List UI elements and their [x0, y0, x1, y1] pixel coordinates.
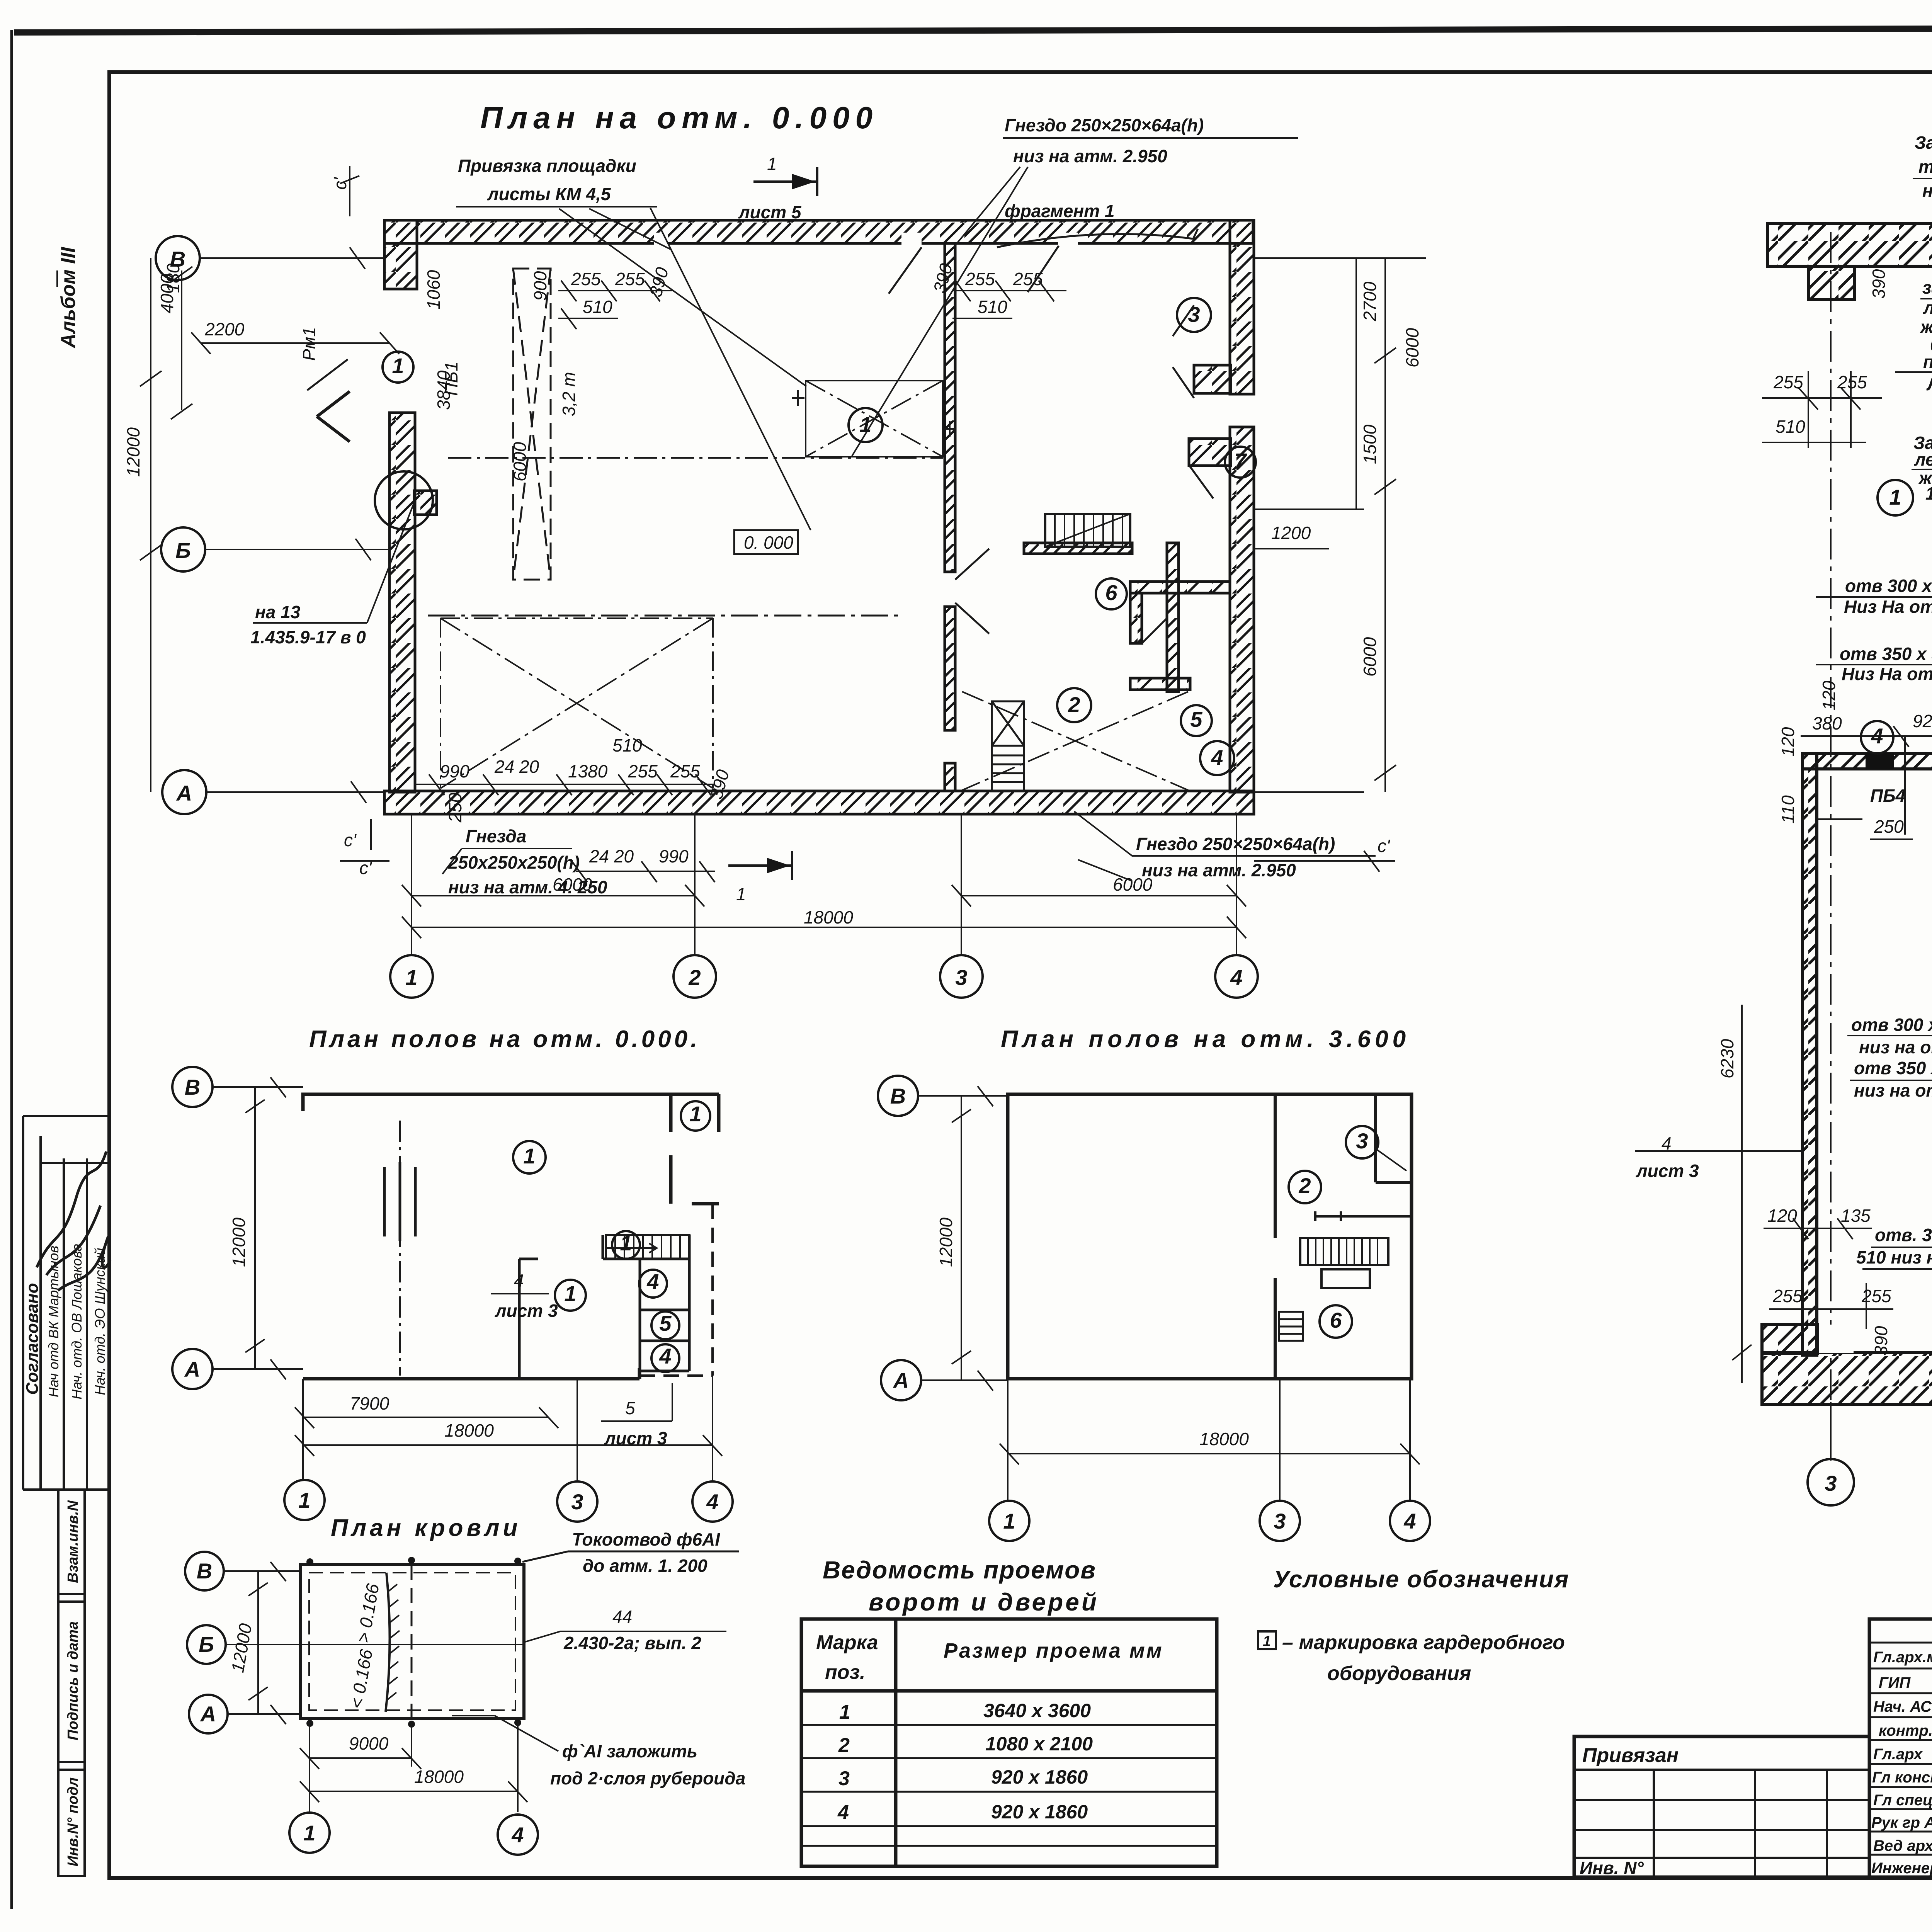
svg-text:А: А [200, 1702, 216, 1726]
svg-text:1500: 1500 [1360, 424, 1380, 464]
bottom wall left step [1762, 1325, 1817, 1353]
svg-text:510: 510 [612, 735, 642, 755]
grid circles floor0 [172, 1067, 213, 1107]
svg-text:3: 3 [1356, 1129, 1368, 1153]
svg-text:Рм1: Рм1 [299, 327, 319, 361]
lower-left outer wall [1803, 753, 1817, 1355]
svg-text:4: 4 [514, 1270, 524, 1291]
svg-text:Гл.арх.мн.: Гл.арх.мн. [1873, 1649, 1932, 1666]
circled 4 + ПБ4 [1861, 721, 1893, 753]
svg-text:255: 255 [615, 269, 645, 289]
roof outline double [301, 1565, 524, 1718]
svg-text:ф`АІ заложить: ф`АІ заложить [562, 1741, 697, 1761]
svg-text:990: 990 [659, 846, 689, 866]
bottom wall [384, 791, 1254, 814]
svg-text:Взам.инв.N: Взам.инв.N [65, 1500, 81, 1583]
left wall step [414, 491, 437, 515]
right wall lower [1230, 427, 1254, 792]
svg-text:оборудования: оборудования [1327, 1662, 1471, 1685]
interior partitions floor0 [519, 1259, 538, 1379]
svg-text:12000: 12000 [936, 1218, 956, 1267]
roof centre dashed [411, 1565, 413, 1718]
svg-text:6: 6 [1330, 1308, 1342, 1332]
svg-text:Гнездо 250×250×64а(h): Гнездо 250×250×64а(h) [1136, 834, 1335, 854]
staff table [1869, 1619, 1932, 1877]
grate 36 [1279, 1312, 1303, 1341]
centerline dash-dot [448, 457, 943, 459]
svg-text:1: 1 [1003, 1509, 1015, 1533]
svg-text:Вед арх: Вед арх [1873, 1837, 1932, 1854]
svg-text:24 20: 24 20 [494, 757, 539, 777]
svg-text:Токоотвод ф6АІ: Токоотвод ф6АІ [572, 1529, 720, 1549]
svg-text:2: 2 [688, 965, 701, 990]
legend icon [1258, 1631, 1276, 1649]
svg-text:Гл констр: Гл констр [1872, 1769, 1932, 1786]
grid circle B [156, 236, 200, 280]
svg-text:120: 120 [1767, 1206, 1797, 1226]
svg-text:1200: 1200 [1271, 523, 1311, 543]
grid circles roof bottom [289, 1813, 330, 1853]
svg-text:1: 1 [689, 1102, 701, 1126]
elevation box 0.000 [734, 530, 798, 554]
grid circle А [162, 770, 206, 814]
sheet outer edge left [10, 30, 13, 1909]
svg-text:4: 4 [511, 1823, 524, 1847]
svg-text:лист 3: лист 3 [495, 1301, 558, 1321]
left dim 12000 [140, 258, 162, 792]
room labels 36 [1289, 1171, 1321, 1203]
svg-text:Подпись и дата: Подпись и дата [65, 1621, 81, 1740]
left dim 4000 [171, 267, 192, 419]
svg-text:6: 6 [1105, 580, 1117, 605]
svg-text:Б: Б [199, 1632, 214, 1656]
svg-text:255: 255 [571, 269, 601, 289]
entrance arrow [317, 391, 350, 442]
interior wall axis3 [945, 243, 955, 572]
top wall door notches [654, 233, 668, 246]
svg-text:920 х 1860: 920 х 1860 [991, 1766, 1088, 1788]
plan outline 36 [1008, 1094, 1412, 1379]
svg-text:Нач. АСО: Нач. АСО [1873, 1698, 1932, 1715]
svg-text:1080 х 2100: 1080 х 2100 [985, 1733, 1093, 1755]
grid line 2 [694, 814, 696, 955]
svg-text:1: 1 [839, 1701, 850, 1723]
svg-text:ления трубопроводов зала-: ления трубопроводов зала- [1914, 449, 1932, 469]
svg-text:Ведомость проемов: Ведомость проемов [823, 1556, 1096, 1584]
svg-text:на отметках 0 800 и 1.200 М-4: на отметках 0 800 и 1.200 М-4 [1922, 180, 1932, 201]
svg-text:9000: 9000 [349, 1733, 389, 1753]
top wall [384, 220, 1253, 243]
room circle 5 [1181, 705, 1212, 736]
horizontal wall at widening [1803, 753, 1932, 769]
lower sidebar strip boxes [58, 1490, 85, 1877]
svg-text:Гл спец: Гл спец [1873, 1792, 1932, 1809]
svg-text:5: 5 [659, 1311, 672, 1335]
svg-text:0. 000: 0. 000 [744, 532, 793, 553]
grid circles 36 [878, 1076, 918, 1116]
svg-text:План полов на отм. 3.600: План полов на отм. 3.600 [1001, 1026, 1410, 1053]
svg-text:4: 4 [659, 1344, 671, 1368]
svg-text:18000: 18000 [444, 1420, 494, 1440]
svg-text:отв 300 х300 ов: отв 300 х300 ов [1851, 1015, 1932, 1035]
left corner block [384, 220, 417, 289]
svg-text:План кровли: План кровли [331, 1515, 521, 1541]
stair floor0 [606, 1235, 689, 1259]
axis 3 vertical dash-dot [1830, 232, 1832, 1461]
svg-text:255: 255 [965, 269, 995, 289]
svg-text:6230: 6230 [1717, 1039, 1737, 1078]
svg-text:2: 2 [1298, 1173, 1311, 1198]
svg-text:Условные обозначения: Условные обозначения [1273, 1566, 1569, 1593]
svg-text:поз.: поз. [825, 1661, 866, 1684]
svg-text:1: 1 [523, 1144, 535, 1168]
svg-text:низ на атм. 2.950: низ на атм. 2.950 [1013, 146, 1167, 166]
svg-text:В: В [197, 1559, 212, 1583]
svg-text:135: 135 [1841, 1206, 1871, 1226]
roof slope break line [386, 1573, 390, 1712]
svg-text:250: 250 [445, 793, 465, 823]
svg-text:4: 4 [1403, 1509, 1416, 1533]
svg-text:закладные детали для креп-: закладные детали для креп- [1922, 277, 1932, 298]
svg-text:5: 5 [625, 1398, 635, 1418]
svg-text:Привязан: Привязан [1582, 1744, 1679, 1767]
dim 2200 [191, 332, 399, 354]
svg-text:Альбом III: Альбом III [57, 247, 80, 349]
svg-text:Инженер: Инженер [1871, 1860, 1932, 1877]
svg-text:под 2·слоя рубероида: под 2·слоя рубероида [550, 1768, 745, 1788]
svg-text:3: 3 [571, 1490, 583, 1514]
left wall [389, 413, 415, 792]
svg-text:Гл.арх: Гл.арх [1873, 1746, 1923, 1763]
svg-text:255: 255 [1013, 269, 1043, 289]
svg-text:низ на атм. 2.950: низ на атм. 2.950 [1142, 860, 1296, 880]
svg-text:Размер проема мм: Размер проема мм [944, 1639, 1163, 1662]
svg-text:1: 1 [298, 1488, 310, 1512]
svg-text:2.430-2а; вып. 2: 2.430-2а; вып. 2 [563, 1633, 701, 1653]
svg-text:Согласовано: Согласовано [23, 1283, 42, 1395]
svg-text:Закладные детали для крепления: Закладные детали для крепления [1915, 133, 1932, 153]
svg-text:1: 1 [620, 1231, 632, 1255]
svg-text:12000: 12000 [229, 1218, 249, 1267]
svg-text:510: 510 [583, 297, 612, 317]
svg-text:Нач. отд. ОВ Лошакова: Нач. отд. ОВ Лошакова [69, 1243, 85, 1399]
platform top middle with X [792, 381, 956, 457]
svg-text:390: 390 [1871, 1326, 1891, 1355]
room labels floor0 [513, 1141, 546, 1173]
bottom dim 18000 [402, 917, 1246, 938]
svg-text:510: 510 [978, 297, 1007, 317]
svg-text:Нач. отд. ЭО Шунский: Нач. отд. ЭО Шунский [92, 1248, 108, 1395]
svg-text:А: А [184, 1357, 200, 1381]
svg-text:Лист КМ-9: Лист КМ-9 [1926, 374, 1932, 394]
svg-text:5: 5 [1190, 707, 1202, 731]
svg-text:990: 990 [440, 761, 469, 781]
svg-text:4: 4 [1211, 745, 1223, 770]
svg-text:Низ На отм 3 000: Низ На отм 3 000 [1844, 597, 1932, 617]
svg-text:4: 4 [837, 1801, 849, 1824]
room circle 1 [849, 408, 883, 442]
svg-text:лист 3: лист 3 [604, 1428, 667, 1448]
svg-text:3840: 3840 [434, 370, 454, 410]
bottom dim 6000 right [952, 885, 1246, 906]
platform left with X [440, 618, 713, 788]
svg-text:1: 1 [1263, 1633, 1271, 1650]
svg-text:отв. 350 х 350 08: отв. 350 х 350 08 [1875, 1225, 1932, 1245]
svg-text:3: 3 [1274, 1509, 1286, 1533]
svg-text:листы КМ 4,5: листы КМ 4,5 [487, 184, 611, 204]
svg-text:Низ На отм. 2.780: Низ На отм. 2.780 [1842, 664, 1932, 684]
svg-text:4: 4 [1871, 724, 1883, 748]
corridor wall [1024, 543, 1132, 554]
room3 partition block [1194, 365, 1231, 393]
svg-text:1: 1 [564, 1281, 576, 1306]
svg-text:1.435.9-17 в 0: 1.435.9-17 в 0 [250, 627, 366, 647]
svg-text:низ на атм. 4. 250: низ на атм. 4. 250 [448, 877, 607, 897]
svg-text:с': с' [344, 830, 357, 850]
svg-text:отв 350 х350 ов: отв 350 х350 ов [1854, 1058, 1932, 1078]
room2 X cross [962, 692, 1188, 790]
svg-text:1: 1 [1889, 485, 1901, 509]
svg-text:План на отм. 0.000: План на отм. 0.000 [480, 100, 878, 135]
svg-text:180: 180 [163, 263, 183, 293]
room circle 4 [1200, 741, 1234, 775]
svg-text:Б: Б [175, 538, 191, 563]
svg-text:2700: 2700 [1360, 281, 1380, 321]
svg-text:Инв. N°: Инв. N° [1580, 1858, 1644, 1878]
svg-text:1060: 1060 [423, 270, 444, 310]
svg-text:3: 3 [1825, 1471, 1837, 1495]
svg-text:380: 380 [1812, 713, 1842, 733]
svg-text:фрагмент 1: фрагмент 1 [1005, 201, 1114, 221]
stair 36 [1300, 1238, 1388, 1288]
svg-text:920 х 1860: 920 х 1860 [991, 1801, 1088, 1823]
svg-text:2: 2 [838, 1734, 850, 1757]
svg-text:отв 350 х 350 08: отв 350 х 350 08 [1840, 644, 1932, 664]
svg-text:1: 1 [303, 1821, 315, 1845]
embed plate black 1 [1866, 753, 1894, 769]
door schedule table [801, 1619, 1217, 1866]
fragment top wall [1767, 224, 1932, 266]
room circle 6 [1096, 578, 1127, 609]
svg-text:Гнезда: Гнезда [466, 826, 526, 846]
svg-text:4: 4 [1230, 965, 1242, 990]
svg-text:Инв.N° подл: Инв.N° подл [65, 1777, 81, 1867]
svg-text:В: В [185, 1075, 200, 1099]
svg-text:Рук гр АРХ: Рук гр АРХ [1871, 1814, 1932, 1831]
svg-text:ления трубопроводов зало-: ления трубопроводов зало- [1923, 298, 1932, 318]
svg-text:1: 1 [405, 965, 417, 990]
svg-text:1380: 1380 [568, 761, 608, 781]
svg-text:120: 120 [1819, 680, 1839, 710]
svg-text:920: 920 [1913, 711, 1932, 731]
circled 1 ПБ1 [383, 352, 413, 383]
svg-text:с': с' [1378, 836, 1391, 856]
svg-text:3,2 т: 3,2 т [559, 372, 579, 416]
signatures scribbles [37, 1151, 110, 1291]
svg-text:255: 255 [628, 761, 658, 781]
svg-text:А: А [893, 1368, 909, 1393]
svg-text:18000: 18000 [804, 907, 853, 927]
svg-text:7900: 7900 [350, 1393, 389, 1413]
svg-text:4: 4 [706, 1490, 718, 1514]
svg-text:В: В [890, 1084, 906, 1108]
interior wall 36 [1275, 1094, 1412, 1379]
svg-text:ворот и дверей: ворот и дверей [869, 1588, 1099, 1616]
svg-text:приямок: приямок [1923, 352, 1932, 372]
svg-text:лист 3: лист 3 [1636, 1161, 1699, 1181]
roof corner dots [306, 1558, 313, 1565]
svg-text:ГИП: ГИП [1879, 1674, 1911, 1691]
door gap marks [384, 1162, 415, 1241]
svg-text:44: 44 [612, 1607, 632, 1627]
approval stamp table [23, 1116, 109, 1490]
svg-text:1.200 М-4: 1.200 М-4 [1925, 483, 1932, 503]
top wall notch block [1808, 266, 1855, 299]
plan outline [303, 1094, 719, 1379]
svg-text:Марка: Марка [816, 1631, 878, 1654]
svg-text:низ на отм 3.000: низ на отм 3.000 [1859, 1037, 1932, 1057]
svg-text:1: 1 [736, 884, 746, 904]
svg-text:2: 2 [1068, 692, 1080, 717]
room5-6 partitions [1167, 543, 1179, 692]
svg-text:3: 3 [838, 1767, 850, 1790]
svg-text:510: 510 [1776, 417, 1805, 437]
circled 1 fragment [1878, 480, 1913, 515]
svg-text:1: 1 [767, 154, 777, 174]
svg-text:контр.: контр. [1879, 1722, 1932, 1739]
svg-text:900: 900 [530, 271, 550, 301]
svg-text:18000: 18000 [1199, 1429, 1249, 1449]
svg-text:250х250х250(h): 250х250х250(h) [448, 852, 580, 872]
svg-text:до атм. 1. 200: до атм. 1. 200 [583, 1556, 707, 1576]
stair mainplan [1045, 514, 1130, 547]
svg-text:Привязка площадки: Привязка площадки [458, 156, 636, 176]
svg-text:жить в кладку на отметке: жить в кладку на отметке [1919, 317, 1932, 337]
svg-text:3: 3 [955, 965, 967, 990]
section mark 1 bottom [728, 851, 792, 880]
svg-text:4: 4 [646, 1269, 659, 1294]
circle mark on wall corner [375, 471, 433, 529]
svg-text:на 13: на 13 [255, 602, 301, 622]
svg-text:низ на отм. 2.780: низ на отм. 2.780 [1854, 1080, 1932, 1100]
svg-text:1: 1 [392, 354, 404, 378]
svg-text:А: А [176, 781, 192, 805]
room circle 3 [1177, 298, 1211, 332]
grid line 1 [411, 814, 412, 955]
room circle 7 [1225, 447, 1256, 478]
svg-text:3640 х 3600: 3640 х 3600 [983, 1700, 1091, 1721]
svg-text:12000: 12000 [123, 427, 143, 477]
sheet outer edge top thick [14, 27, 1932, 32]
room circle 2 [1057, 688, 1091, 722]
svg-text:трубопроводов заложить в кладк: трубопроводов заложить в кладку [1918, 156, 1932, 177]
svg-text:Гнездо 250×250×64а(h): Гнездо 250×250×64а(h) [1005, 115, 1204, 135]
leader lines to platform [559, 208, 811, 530]
svg-text:отв 300 х 300 08: отв 300 х 300 08 [1845, 576, 1932, 596]
svg-text:1: 1 [859, 412, 871, 437]
svg-text:– маркировка гардеробного: – маркировка гардеробного [1282, 1631, 1565, 1654]
svg-text:7: 7 [1234, 449, 1247, 473]
grid circles roof [185, 1552, 224, 1590]
svg-text:255: 255 [670, 761, 700, 781]
svg-text:255: 255 [1772, 1286, 1803, 1306]
bottom dim 6000 left [402, 885, 704, 906]
door swing diagonals [889, 246, 1213, 643]
grid circle 3 fragment [1830, 1402, 1832, 1459]
shaft ladder [992, 701, 1024, 791]
grid line 4 [1236, 814, 1237, 955]
svg-text:110: 110 [1778, 795, 1798, 824]
fragment bottom wall [1762, 1352, 1932, 1405]
svg-text:390: 390 [1869, 269, 1889, 299]
svg-text:120: 120 [1778, 727, 1798, 757]
svg-text:250: 250 [1874, 816, 1904, 837]
привязан box [1574, 1736, 1869, 1877]
svg-text:лист 5: лист 5 [738, 202, 802, 222]
svg-text:510 низ на отм. 2. 430: 510 низ на отм. 2. 430 [1856, 1247, 1932, 1267]
svg-text:2200: 2200 [204, 319, 245, 339]
svg-text:18000: 18000 [414, 1767, 464, 1787]
room7 partition block [1189, 439, 1231, 466]
crane dashed outline [513, 269, 551, 580]
svg-text:ПБ4: ПБ4 [1870, 786, 1905, 806]
svg-text:6000: 6000 [1360, 637, 1380, 677]
right wall upper [1230, 220, 1254, 394]
grid circle Б [161, 527, 205, 571]
svg-text:24 20: 24 20 [589, 846, 634, 866]
svg-text:6000: 6000 [510, 442, 530, 481]
svg-text:План полов на отм. 0.000.: План полов на отм. 0.000. [309, 1026, 700, 1053]
grid line 3 [961, 814, 962, 955]
svg-text:6000: 6000 [1402, 328, 1422, 367]
